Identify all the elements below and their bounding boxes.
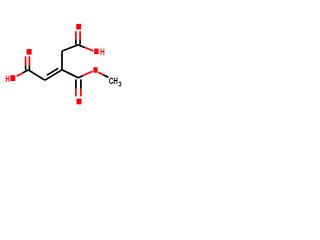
bond C5-O4 (to hydroxyl of left acid) (17, 70, 29, 76)
bond C2-C3 (61, 51, 63, 70)
bond O5-CH3 (98, 72, 108, 77)
svg-text:3: 3 (119, 80, 122, 89)
atom O5 (ester oxygen) (93, 67, 97, 73)
bond C3=C4 double bond (vinyl) (45, 68, 62, 80)
bond C5=O3 double bond (left carboxyl C=O) (26, 56, 30, 70)
atom O3 (left carbonyl oxygen) (27, 49, 32, 55)
svg-text:H: H (5, 74, 9, 84)
bond C6-O5 (ester C-O) (78, 71, 92, 78)
atom O6 (ester carbonyl oxygen) (77, 99, 82, 105)
bond C3-C6 (62, 70, 78, 78)
svg-text:CH: CH (109, 76, 118, 86)
bond C1-C2 (62, 45, 78, 51)
atom O2 with H (top acid OH) (94, 49, 98, 55)
bond C1=O1 double bond (top carboxyl C=O) (76, 31, 80, 44)
bond C4-C5 (28, 70, 45, 80)
svg-text:H: H (100, 47, 105, 57)
bond C6=O6 double bond (ester carbonyl) (76, 79, 81, 96)
atom O1 (top carbonyl oxygen) (76, 24, 81, 30)
bond C1-O2 (to hydroxyl of top acid) (78, 45, 93, 51)
